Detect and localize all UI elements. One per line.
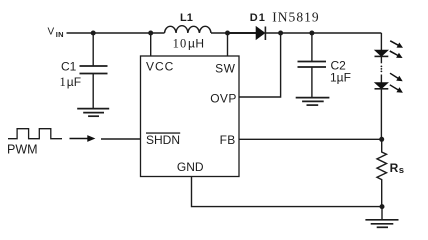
label D1 IN5819 xyxy=(250,10,320,25)
label C1 1uF xyxy=(60,60,82,89)
svg-text:SW: SW xyxy=(215,62,236,76)
pin SW label xyxy=(215,62,236,76)
wire LED2 to FB node xyxy=(380,89,382,140)
label RS xyxy=(390,161,404,176)
pin OVP label xyxy=(210,92,237,106)
dotted wire between LEDs xyxy=(381,66,383,73)
inductor L1 xyxy=(165,26,212,33)
wire diode anode (bold) xyxy=(228,32,257,34)
pin SHDN label with overline xyxy=(146,132,180,146)
ground below C2 xyxy=(296,98,330,106)
wire VCC pin xyxy=(150,33,152,56)
svg-text:V: V xyxy=(48,27,55,38)
LED LED2 xyxy=(380,75,382,83)
svg-text:SHDN: SHDN xyxy=(146,133,180,147)
svg-text:VCC: VCC xyxy=(146,60,174,74)
svg-text:R: R xyxy=(390,161,399,175)
svg-text:L1: L1 xyxy=(180,12,193,24)
wire SW pin xyxy=(227,33,229,56)
wire L1 to diode xyxy=(211,32,228,34)
ground below C1 xyxy=(77,109,109,117)
PWM pulse waveform xyxy=(8,129,62,139)
svg-text:C1: C1 xyxy=(61,60,77,74)
node PWM label xyxy=(7,142,38,156)
svg-text:IN5819: IN5819 xyxy=(272,10,320,25)
pin FB label xyxy=(220,133,236,147)
capacitor C1 xyxy=(92,33,94,66)
svg-text:µH: µH xyxy=(188,37,204,51)
node junction OVP riser xyxy=(278,31,283,36)
diode D1 xyxy=(256,27,264,39)
pin GND label xyxy=(177,160,204,174)
svg-text:PWM: PWM xyxy=(7,142,38,156)
svg-text:GND: GND xyxy=(177,160,204,174)
capacitor C2 xyxy=(311,33,313,62)
wire GND pin to bottom rail xyxy=(192,177,383,207)
LED2 light arrows xyxy=(389,73,403,93)
label C2 1uF xyxy=(330,59,351,85)
node junction C2 tap xyxy=(309,31,314,36)
ground bottom right xyxy=(381,207,383,220)
arrow PWM to SHDN xyxy=(70,135,96,142)
resistor RS xyxy=(377,139,387,206)
svg-text:s: s xyxy=(399,165,404,176)
label L1 10uH xyxy=(173,12,205,51)
svg-text:IN: IN xyxy=(56,30,64,39)
svg-text:1: 1 xyxy=(60,75,66,89)
wire OVP pin to riser xyxy=(239,33,281,97)
svg-text:OVP: OVP xyxy=(210,92,237,106)
svg-text:D1: D1 xyxy=(250,12,266,24)
node junction VCC tap xyxy=(148,31,153,36)
wire FB pin to Rs xyxy=(239,138,382,140)
LED string feed wire xyxy=(380,33,382,50)
svg-text:FB: FB xyxy=(220,133,236,147)
svg-text:10: 10 xyxy=(173,37,188,51)
wire VIN to L1 xyxy=(67,32,165,34)
node junction VIN/C1 xyxy=(91,31,96,36)
node junction bottom rail / ground xyxy=(380,204,385,209)
node junction FB/LED/Rs xyxy=(379,137,384,142)
svg-text:1µF: 1µF xyxy=(330,71,351,85)
wire diode to LED string xyxy=(265,32,381,34)
svg-text:µF: µF xyxy=(67,75,81,89)
wire into SHDN pin xyxy=(101,138,141,140)
pin VCC label xyxy=(146,60,174,74)
node VIN xyxy=(48,27,64,40)
LED LED1 xyxy=(375,50,388,56)
LED1 light arrows xyxy=(389,40,403,58)
IC U1 body xyxy=(141,56,240,177)
node junction SW tap xyxy=(225,31,230,36)
